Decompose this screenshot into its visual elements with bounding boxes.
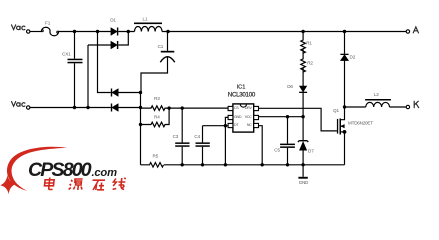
wire NC pin to ground rail (259, 126, 263, 165)
wire top rail DC+ : bridge to L1 (118, 31, 134, 33)
pin GND (box) (228, 115, 233, 119)
fuse F1 (42, 27, 59, 36)
junction D6 / VCC node (301, 115, 304, 118)
svg-text:L2: L2 (374, 92, 379, 97)
char 源 (69, 179, 84, 190)
pin CS (box) (228, 106, 233, 110)
node label K (414, 101, 419, 108)
diode D7 (zener) (302, 117, 304, 141)
svg-text:C1: C1 (158, 44, 164, 49)
junction C1 / L1 output (166, 30, 169, 33)
svg-text:D1: D1 (110, 18, 116, 23)
junction DC- column / AC2 row (139, 106, 142, 109)
wire DRV pin to gate (259, 108, 337, 131)
junction GND pin column / ground rail (224, 163, 227, 166)
junction C5 / ground rail (286, 163, 289, 166)
logo CPS800.com 电源在线 (0, 147, 126, 194)
diode bridge D1 top-left (row1) (111, 28, 117, 35)
diode bridge D1 row4 (30, 107, 111, 109)
svg-text:R4: R4 (154, 115, 160, 120)
resistor R4 (141, 108, 170, 127)
wire source to ground rail (344, 132, 346, 165)
svg-text:VCC: VCC (245, 115, 252, 119)
junction D7 / ground symbol / ground rail (301, 163, 304, 166)
resistor R3 (141, 106, 170, 111)
logo swoosh (7, 147, 67, 191)
label Vac top (12, 25, 25, 30)
char 电 (44, 178, 54, 190)
junction C3 / ground rail (181, 163, 184, 166)
svg-text:C5: C5 (274, 147, 280, 152)
node A terminal (406, 30, 409, 33)
junction R3-R4 / CS node (167, 106, 170, 109)
svg-text:C4: C4 (194, 134, 200, 139)
svg-text:NCL30100: NCL30100 (228, 92, 256, 99)
svg-text:R5: R5 (153, 154, 159, 159)
label Vac bottom (12, 102, 25, 107)
svg-text:DRV: DRV (245, 106, 253, 110)
svg-text:.com: .com (92, 167, 118, 179)
char 在 (92, 180, 106, 190)
wire row2 left column (87, 45, 89, 108)
junction C4 / ground rail (201, 163, 204, 166)
junction C3 / CS node (181, 106, 184, 109)
wire fuse to bridge (top rail AC side) (58, 31, 111, 33)
wire Vac top to fuse (30, 31, 42, 33)
resistor R5 in ground rail (141, 163, 164, 168)
node label A (413, 27, 418, 33)
resistor R1 (301, 32, 306, 54)
junction DT / C4 / GND column (224, 124, 227, 127)
node Vac top terminal (27, 30, 30, 33)
diode bridge D1 row2 (88, 44, 111, 46)
svg-text:CPS800: CPS800 (28, 159, 92, 181)
svg-text:C3: C3 (173, 134, 179, 139)
svg-text:D7: D7 (308, 148, 314, 153)
junction C5 / VCC node (286, 115, 289, 118)
wire C1 bottom to DC- column (141, 57, 168, 92)
junction bridge AC1 leg / top rail (96, 30, 99, 33)
junction R1 / top rail (301, 30, 304, 33)
wire CS line to IC (169, 107, 228, 109)
inductor L1 (135, 26, 163, 31)
char 线 (113, 178, 126, 190)
ground symbol GND (302, 165, 304, 177)
transistor Q1 MOSFET (337, 119, 338, 134)
pin VCC (box) (254, 115, 259, 119)
junction node DC+ (127, 30, 130, 33)
wire DC- column (140, 93, 142, 165)
svg-text:L1: L1 (143, 17, 148, 22)
svg-text:D6: D6 (287, 84, 293, 89)
wire C4 to DT pin (203, 125, 229, 127)
resistor R2 (301, 49, 306, 72)
svg-text:F1: F1 (45, 20, 51, 25)
svg-text:CX1: CX1 (62, 52, 71, 57)
svg-text:R2: R2 (307, 61, 313, 66)
pin DT (box) (228, 123, 233, 127)
junction NC pin column / ground rail (261, 163, 264, 166)
diode D6 (302, 68, 304, 86)
capacitor C5 (287, 117, 289, 144)
pin NC (box) (254, 123, 259, 127)
diode D2 (344, 32, 346, 54)
junction CX1 / top rail (73, 30, 76, 33)
junction D2 / top rail (343, 30, 346, 33)
wire VCC line (259, 116, 304, 118)
junction Q1 drain / D2 / L2 (343, 105, 346, 108)
svg-text:R3: R3 (154, 96, 160, 101)
IC IC1 NCL30100 body (228, 104, 258, 132)
svg-text:GND: GND (299, 180, 308, 185)
wire ground rail (164, 164, 345, 166)
svg-text:Q1: Q1 (333, 108, 339, 113)
svg-text:IC1: IC1 (237, 85, 246, 91)
pin DRV (box) (254, 106, 259, 110)
wire top rail L1 to terminal A (162, 31, 406, 33)
diode bridge D1 row3 (98, 32, 111, 93)
inductor L2 (366, 102, 390, 107)
wire GND pin to ground rail (225, 117, 228, 164)
junction CX1 / bottom AC line (73, 106, 76, 109)
capacitor CX1 (74, 32, 76, 59)
junction Q1 source (343, 130, 347, 134)
capacitor C1 (167, 32, 169, 51)
node Vac bottom terminal (27, 106, 30, 109)
junction node DC- / C1 return (139, 91, 142, 94)
junction DC- column / R4 (139, 123, 142, 126)
wire drain node to L2 (345, 106, 366, 108)
junction bridge AC2 leg (86, 106, 89, 109)
capacitor C4 (202, 126, 204, 143)
svg-text:NC: NC (247, 123, 252, 127)
logo chinese 电源在线 (drawn strokes) (44, 178, 126, 191)
node K terminal (406, 105, 409, 108)
wire L2 to terminal K (390, 106, 407, 108)
logo star (0, 175, 16, 194)
svg-text:GND: GND (234, 115, 242, 119)
svg-text:MTD6N20ET: MTD6N20ET (348, 120, 373, 125)
svg-text:R1: R1 (306, 41, 312, 46)
capacitor C3 (181, 108, 183, 142)
svg-text:D2: D2 (350, 54, 356, 59)
